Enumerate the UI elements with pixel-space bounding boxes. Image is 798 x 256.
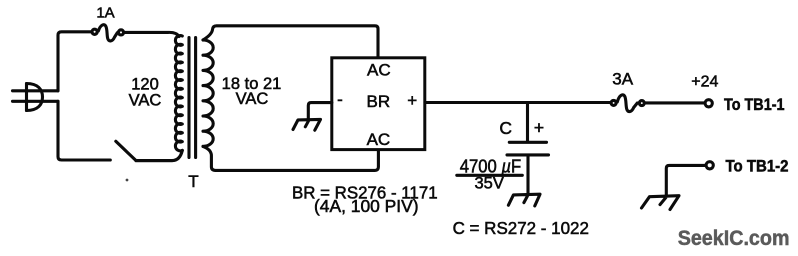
svg-text:-: - (337, 90, 343, 109)
wire secondary top to bridge AC top (203, 26, 378, 57)
svg-text:C = RS272 - 1022: C = RS272 - 1022 (453, 218, 589, 238)
svg-text:C: C (499, 118, 512, 138)
svg-text:+: + (534, 118, 544, 138)
svg-text:VAC: VAC (236, 90, 269, 108)
svg-text:1A: 1A (96, 5, 114, 22)
ground (chassis) below capacitor C (508, 194, 540, 206)
svg-text:AC: AC (367, 130, 391, 149)
transformer T core (189, 38, 196, 158)
svg-text:+: + (407, 91, 417, 110)
capacitor C lead bottom (526, 157, 529, 194)
svg-text:VAC: VAC (129, 92, 162, 110)
wire fuse F1 to transformer primary (125, 32, 179, 36)
capacitor C plates (507, 142, 549, 155)
wire plug top prong to fuse F1 (58, 32, 91, 91)
capacitor C lead top (526, 103, 529, 141)
svg-text:35V: 35V (475, 175, 504, 193)
wire fuse F2 to terminal TB1-1 (645, 101, 704, 104)
stray dot (126, 179, 129, 182)
transformer T secondary winding (203, 40, 213, 146)
wire terminal TB1-2 to ground (666, 165, 705, 195)
svg-text:3A: 3A (612, 70, 633, 89)
switch S1 (116, 141, 136, 160)
bridge rectifier BR box (332, 58, 425, 150)
svg-text:To TB1-2: To TB1-2 (726, 158, 789, 176)
wire primary bottom to switch (136, 150, 182, 160)
ground (chassis) at TB1-2 (642, 196, 680, 210)
transformer T primary winding (175, 36, 182, 151)
wire plug bottom prong down to switch (58, 101, 110, 160)
fuse F2 (3A) (611, 95, 644, 112)
wire bridge plus to fuse F2 and output (425, 101, 611, 104)
svg-text:T: T (188, 172, 198, 191)
svg-text:4700 µF: 4700 µF (460, 156, 522, 176)
fuse F1 (1A) (92, 25, 124, 41)
svg-text:(4A, 100 PIV): (4A, 100 PIV) (314, 196, 419, 216)
svg-text:+24: +24 (691, 73, 718, 90)
fraction bar (457, 174, 523, 177)
wire secondary bottom to bridge AC bottom (203, 146, 378, 170)
svg-text:BR: BR (366, 92, 390, 111)
wire bridge minus to ground (308, 103, 332, 119)
terminal TB1-1 (705, 100, 712, 107)
svg-text:AC: AC (367, 61, 391, 80)
wire switch to primary bottom (136, 159, 172, 162)
terminal TB1-2 (706, 162, 713, 169)
svg-text:SeekIC.com: SeekIC.com (678, 226, 790, 250)
AC plug P1 (13, 84, 59, 111)
ground (chassis) near bridge (293, 119, 321, 130)
svg-text:To TB1-1: To TB1-1 (724, 96, 785, 114)
